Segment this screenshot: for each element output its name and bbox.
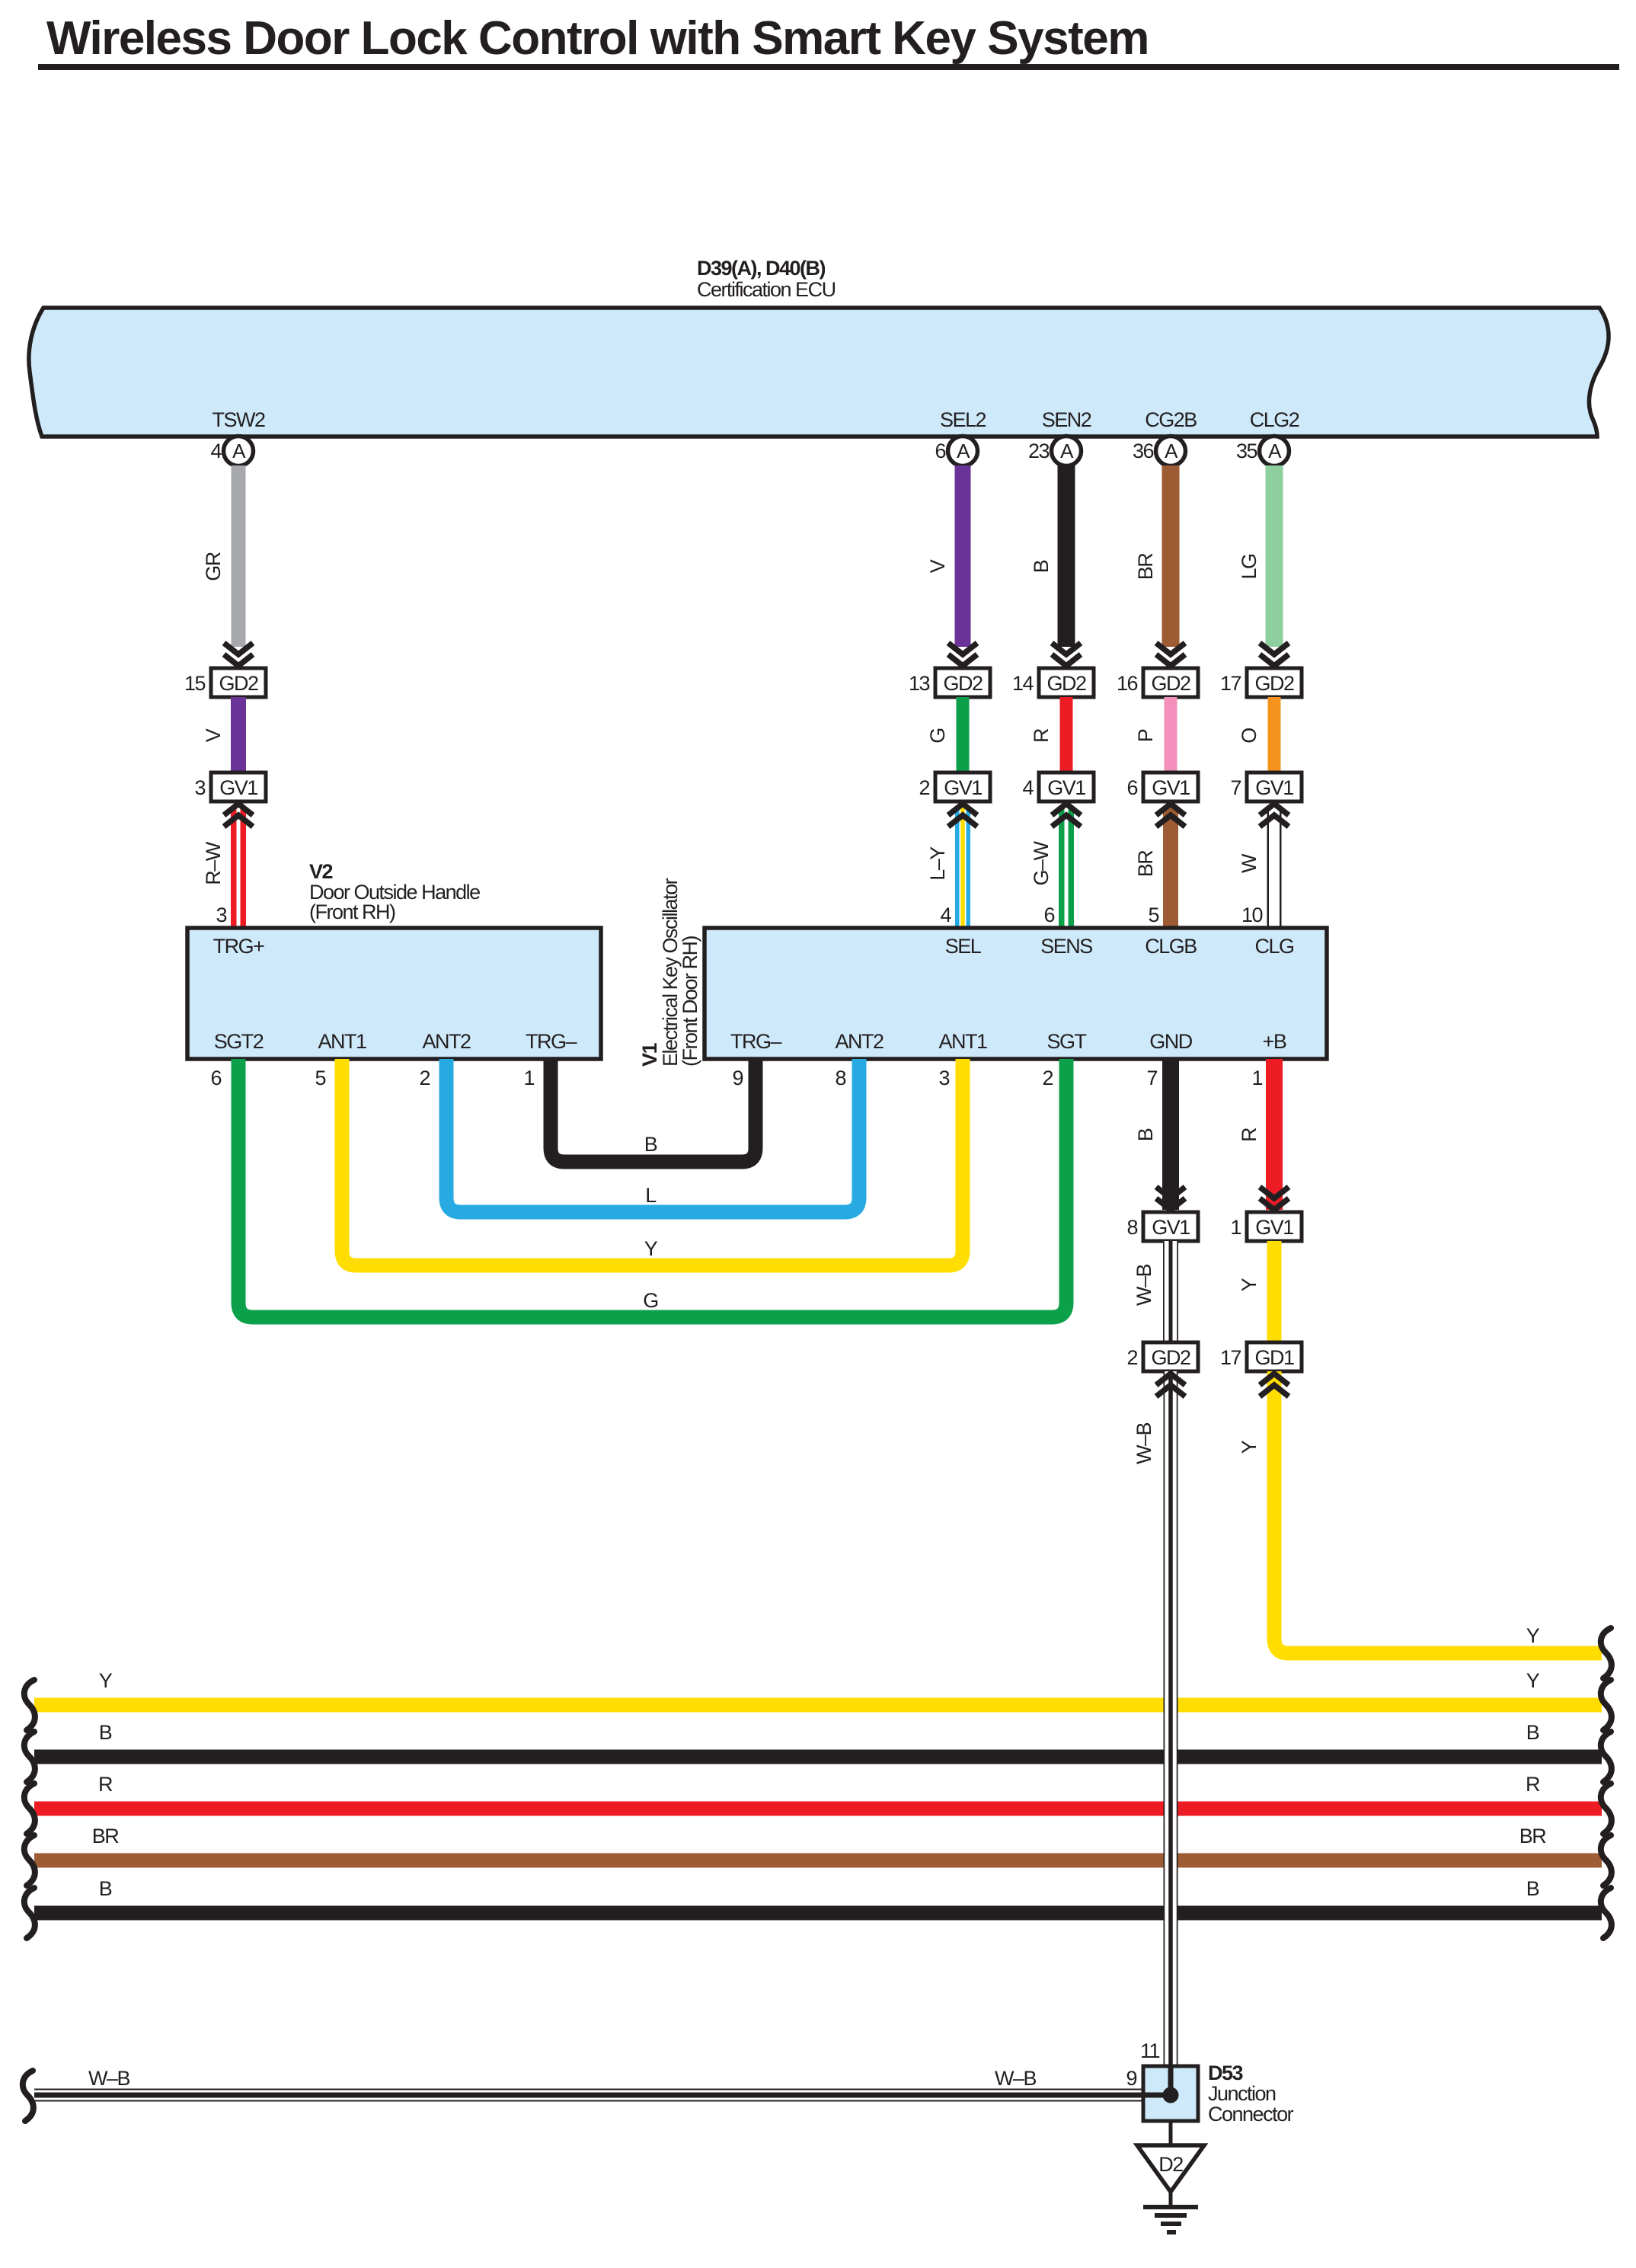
connector GD2 pin 15 xyxy=(211,668,266,697)
connector GD2 pin 14 xyxy=(1039,668,1094,697)
svg-text:BR: BR xyxy=(1134,553,1157,581)
svg-text:CG2B: CG2B xyxy=(1145,408,1197,431)
wire Y from GV1 1 to GD1 17 xyxy=(1267,1241,1282,1342)
wire V from GD2 to GV1 xyxy=(231,697,246,773)
wire LG from ECU pin 35 to GD2 xyxy=(1266,465,1283,647)
wire G between V2 SGT2 pin6 and V1 SGT pin2 xyxy=(238,1059,1066,1317)
svg-text:13: 13 xyxy=(909,672,930,695)
wire B from ECU pin 23 to GD2 xyxy=(1058,465,1075,647)
pin 23 connector A circle (col x=1400) xyxy=(1052,437,1082,466)
wire B from V1 GND pin7 down xyxy=(1162,1059,1179,1210)
svg-text:2: 2 xyxy=(419,1067,430,1089)
svg-text:4: 4 xyxy=(940,904,951,926)
svg-text:36: 36 xyxy=(1133,440,1154,462)
wire Y long from GD1 17 down then right to page break xyxy=(1274,1371,1602,1653)
connector GV1 pin 3 xyxy=(211,773,266,801)
svg-text:G: G xyxy=(926,728,949,744)
svg-text:Y: Y xyxy=(1238,1278,1261,1291)
svg-text:3: 3 xyxy=(938,1067,949,1089)
component V1 Electrical Key Oscillator (Front Door RH) rotated label xyxy=(638,878,701,1067)
svg-text:B: B xyxy=(1134,1128,1157,1141)
svg-text:D2: D2 xyxy=(1158,2153,1183,2176)
svg-text:Y: Y xyxy=(99,1669,113,1692)
svg-text:V: V xyxy=(926,559,949,573)
wire BR from ECU pin 36 to GD2 xyxy=(1162,465,1180,647)
svg-text:ANT2: ANT2 xyxy=(422,1030,471,1053)
svg-text:BR: BR xyxy=(1519,1825,1547,1847)
svg-text:11: 11 xyxy=(1140,2039,1160,2062)
svg-text:P: P xyxy=(1134,729,1157,742)
svg-text:B: B xyxy=(1526,1721,1539,1744)
wire B bus at y=2511 xyxy=(34,1906,1602,1921)
svg-text:B: B xyxy=(99,1721,112,1744)
svg-text:GR: GR xyxy=(202,552,225,581)
svg-text:GV1: GV1 xyxy=(1047,776,1085,799)
ECU box (Certification ECU) xyxy=(29,308,1609,437)
component box V2 xyxy=(187,928,601,1059)
svg-text:A: A xyxy=(957,440,970,462)
wire BR bus at y=2442 xyxy=(34,1854,1602,1868)
svg-text:Certification ECU: Certification ECU xyxy=(697,278,836,301)
connector GV1 pin 6 xyxy=(1143,773,1198,801)
svg-text:GND: GND xyxy=(1149,1030,1193,1053)
svg-text:3: 3 xyxy=(216,904,226,926)
svg-text:5: 5 xyxy=(315,1067,325,1089)
svg-text:B: B xyxy=(1030,560,1053,573)
wire Y between V2 ANT1 pin5 and V1 ANT1 pin3 xyxy=(342,1059,963,1265)
connector GD2 pin 17 xyxy=(1247,668,1302,697)
svg-text:B: B xyxy=(644,1133,657,1156)
svg-text:GD2: GD2 xyxy=(1046,672,1086,695)
ground triangle D2 xyxy=(1137,2145,1204,2192)
svg-text:Y: Y xyxy=(1238,1440,1261,1454)
wire V from ECU pin 6 to GD2 xyxy=(955,465,971,647)
svg-text:O: O xyxy=(1238,728,1261,744)
svg-text:16: 16 xyxy=(1117,672,1138,695)
svg-text:1: 1 xyxy=(1251,1067,1262,1089)
wire W-B from GV1 8 to GD2 2 xyxy=(1163,1241,1178,1342)
svg-text:GV1: GV1 xyxy=(1255,776,1293,799)
svg-text:6: 6 xyxy=(1126,776,1137,799)
svg-text:2: 2 xyxy=(1042,1067,1053,1089)
svg-text:1: 1 xyxy=(523,1067,534,1089)
svg-text:GD1: GD1 xyxy=(1254,1346,1294,1369)
svg-text:Wireless Door Lock Control wit: Wireless Door Lock Control with Smart Ke… xyxy=(46,12,1149,65)
wire G from GD2 to GV1 xyxy=(957,697,970,773)
wire BR from GV1 to component pin 5 xyxy=(1163,808,1178,928)
svg-text:TSW2: TSW2 xyxy=(212,408,264,431)
svg-text:Connector: Connector xyxy=(1208,2103,1294,2126)
svg-text:TRG+: TRG+ xyxy=(213,935,264,958)
svg-text:GD2: GD2 xyxy=(1254,672,1294,695)
svg-text:GV1: GV1 xyxy=(219,776,257,799)
svg-text:6: 6 xyxy=(210,1067,221,1089)
svg-text:B: B xyxy=(99,1877,112,1900)
svg-text:4: 4 xyxy=(210,440,222,462)
svg-text:W: W xyxy=(1238,853,1261,873)
svg-text:SGT: SGT xyxy=(1046,1030,1086,1053)
svg-text:V2: V2 xyxy=(309,860,333,883)
ground symbol xyxy=(1169,2192,1173,2206)
svg-text:R: R xyxy=(1526,1773,1540,1796)
svg-text:GD2: GD2 xyxy=(1151,1346,1190,1369)
wire W from GV1 to component pin 10 xyxy=(1267,808,1282,928)
wire L–Y from GV1 to component pin 4 xyxy=(955,808,970,928)
svg-text:10: 10 xyxy=(1241,904,1263,926)
connector GD1 pin 17 xyxy=(1247,1342,1302,1371)
svg-text:CLG2: CLG2 xyxy=(1250,408,1299,431)
svg-text:7: 7 xyxy=(1230,776,1241,799)
svg-text:23: 23 xyxy=(1028,440,1050,462)
svg-text:GV1: GV1 xyxy=(1255,1216,1293,1239)
svg-text:W–B: W–B xyxy=(88,2067,130,2090)
svg-text:W–B: W–B xyxy=(1133,1265,1155,1307)
svg-text:ANT2: ANT2 xyxy=(835,1030,884,1053)
connector GD2 pin 13 xyxy=(935,668,990,697)
svg-text:6: 6 xyxy=(935,440,945,462)
connector GD2 pin 16 xyxy=(1143,668,1198,697)
wire GR from ECU pin 4 to GD2 xyxy=(232,465,246,647)
pin 36 connector A circle (col x=1537) xyxy=(1156,437,1186,466)
svg-text:GD2: GD2 xyxy=(943,672,983,695)
svg-text:D53: D53 xyxy=(1208,2062,1244,2084)
svg-text:SEL: SEL xyxy=(945,935,982,958)
svg-text:(Front RH): (Front RH) xyxy=(309,900,395,923)
svg-text:2: 2 xyxy=(1126,1346,1137,1369)
svg-text:A: A xyxy=(1165,440,1178,462)
svg-text:1: 1 xyxy=(1230,1216,1241,1239)
pin 35 connector A circle (col x=1673) xyxy=(1260,437,1289,466)
svg-text:15: 15 xyxy=(184,672,206,695)
svg-text:SGT2: SGT2 xyxy=(214,1030,264,1053)
svg-text:L–Y: L–Y xyxy=(926,846,949,881)
wire W-B horizontal to junction D53 pin 9 xyxy=(34,2089,1143,2102)
svg-text:Y: Y xyxy=(1526,1624,1540,1647)
svg-text:+B: +B xyxy=(1263,1030,1286,1053)
svg-text:GD2: GD2 xyxy=(1151,672,1190,695)
svg-text:6: 6 xyxy=(1043,904,1054,926)
connector GV1 pin 7 xyxy=(1247,773,1302,801)
svg-text:TRG–: TRG– xyxy=(730,1030,781,1053)
svg-text:L: L xyxy=(645,1184,657,1207)
wire G–W from GV1 to component pin 6 xyxy=(1059,808,1074,928)
wire from D53 to ground triangle xyxy=(1169,2121,1173,2147)
svg-text:A: A xyxy=(232,440,246,462)
svg-text:R–W: R–W xyxy=(202,841,225,885)
connector GV1 pin 4 xyxy=(1039,773,1094,801)
pin 6 connector A circle (col x=1264) xyxy=(948,437,978,466)
svg-text:3: 3 xyxy=(194,776,205,799)
svg-text:SEL2: SEL2 xyxy=(940,408,986,431)
svg-text:W–B: W–B xyxy=(995,2067,1037,2090)
connector GV1 pin 2 xyxy=(935,773,990,801)
svg-text:ANT1: ANT1 xyxy=(318,1030,366,1053)
svg-text:R: R xyxy=(98,1773,113,1796)
svg-text:R: R xyxy=(1030,728,1053,743)
svg-text:14: 14 xyxy=(1012,672,1034,695)
wire B bus at y=2306 xyxy=(34,1750,1602,1764)
connector GV1 pin 8 xyxy=(1143,1212,1198,1241)
svg-text:TRG–: TRG– xyxy=(526,1030,577,1053)
svg-text:Y: Y xyxy=(1526,1669,1540,1692)
svg-text:5: 5 xyxy=(1148,904,1158,926)
svg-text:(Front Door RH): (Front Door RH) xyxy=(679,936,701,1067)
wire R from V1 +B pin1 down xyxy=(1266,1059,1283,1210)
svg-text:8: 8 xyxy=(1126,1216,1137,1239)
connector GV1 pin 1 xyxy=(1247,1212,1302,1241)
svg-text:W–B: W–B xyxy=(1133,1423,1155,1465)
svg-text:2: 2 xyxy=(919,776,929,799)
wire W-B long from GD2 2 down to junction D53 xyxy=(1164,1371,1178,2066)
svg-text:Y: Y xyxy=(644,1237,658,1260)
svg-text:SENS: SENS xyxy=(1040,935,1092,958)
svg-text:7: 7 xyxy=(1146,1067,1157,1089)
svg-text:ANT1: ANT1 xyxy=(938,1030,987,1053)
component box V1 xyxy=(705,928,1327,1059)
svg-text:BR: BR xyxy=(92,1825,120,1847)
svg-text:CLG: CLG xyxy=(1254,935,1293,958)
pin 4 connector A circle (col x=313) xyxy=(224,437,254,466)
svg-text:8: 8 xyxy=(835,1067,845,1089)
wire R bus at y=2374 xyxy=(34,1802,1602,1816)
svg-text:A: A xyxy=(1268,440,1282,462)
wire R–W from GV1 to component pin 3 xyxy=(231,808,246,928)
svg-text:A: A xyxy=(1060,440,1074,462)
svg-text:GV1: GV1 xyxy=(1152,776,1190,799)
connector GD2 pin 2 xyxy=(1143,1342,1198,1371)
svg-text:BR: BR xyxy=(1134,850,1157,878)
svg-text:D39(A), D40(B): D39(A), D40(B) xyxy=(697,257,826,280)
svg-text:9: 9 xyxy=(1126,2067,1136,2090)
svg-text:4: 4 xyxy=(1022,776,1034,799)
svg-text:LG: LG xyxy=(1238,554,1261,579)
wire O from GD2 to GV1 xyxy=(1268,697,1281,773)
wire P from GD2 to GV1 xyxy=(1165,697,1177,773)
wire B between V2 TRG- pin1 and V1 TRG- pin9 xyxy=(551,1059,756,1162)
svg-text:9: 9 xyxy=(732,1067,743,1089)
svg-text:Junction: Junction xyxy=(1208,2082,1276,2105)
svg-text:B: B xyxy=(1526,1877,1539,1900)
svg-text:GD2: GD2 xyxy=(219,672,258,695)
svg-text:35: 35 xyxy=(1236,440,1257,462)
svg-text:V: V xyxy=(202,728,225,742)
svg-text:GV1: GV1 xyxy=(1152,1216,1190,1239)
svg-text:CLGB: CLGB xyxy=(1145,935,1197,958)
junction connector D53 xyxy=(1143,2066,1198,2121)
svg-text:G–W: G–W xyxy=(1030,840,1053,885)
svg-text:GV1: GV1 xyxy=(944,776,982,799)
svg-text:V1: V1 xyxy=(638,1042,661,1067)
svg-text:17: 17 xyxy=(1220,672,1241,695)
svg-text:G: G xyxy=(643,1289,658,1312)
svg-text:R: R xyxy=(1238,1128,1261,1142)
svg-text:SEN2: SEN2 xyxy=(1042,408,1091,431)
svg-text:17: 17 xyxy=(1220,1346,1241,1369)
wire L between V2 ANT2 pin2 and V1 ANT2 pin8 xyxy=(446,1059,859,1212)
wire Y bus at y=2238 xyxy=(34,1698,1602,1713)
wire R from GD2 to GV1 xyxy=(1060,697,1073,773)
